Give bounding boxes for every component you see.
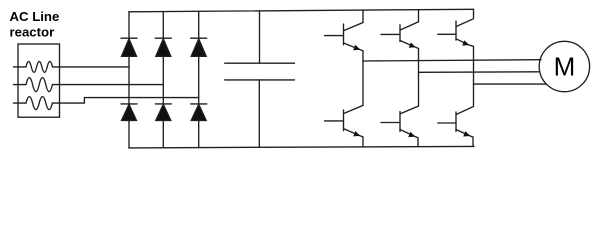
- svg-text:M: M: [554, 52, 576, 82]
- diode D3 top leg3: [191, 38, 207, 56]
- rectifier leg 2 wire: [162, 12, 164, 148]
- wire phase A input stub: [14, 66, 27, 68]
- transistor Q2 top leg2: [381, 10, 419, 73]
- capacitor C1 bottom plate: [225, 79, 295, 81]
- transistor Q6 bottom leg3: [438, 84, 474, 146]
- svg-text:AC Line: AC Line: [10, 9, 60, 24]
- label: AC Line reactor: [10, 9, 60, 40]
- diode D6 bottom leg3: [191, 104, 207, 121]
- wire phase C with jog to bridge leg 3: [52, 98, 198, 104]
- rectifier leg 1 wire: [128, 12, 130, 148]
- phase U output wire to motor: [363, 60, 541, 61]
- wire phase B input stub: [14, 84, 27, 86]
- transistor Q4 bottom leg1: [325, 61, 364, 147]
- transistor Q5 bottom leg2: [381, 72, 419, 146]
- diode D5 bottom leg2: [155, 104, 171, 121]
- diode D1 top leg1: [121, 38, 137, 56]
- inductor coil phase B: [26, 78, 52, 92]
- diode D4 bottom leg1: [121, 104, 137, 121]
- AC line reactor box L1: [18, 44, 60, 117]
- DC bus capacitor C1 stem top: [259, 11, 261, 63]
- diode D2 top leg2: [155, 38, 171, 56]
- phase W output wire to motor: [474, 83, 547, 85]
- wire phase B to bridge leg 2: [52, 84, 163, 86]
- DC+ top rail: [129, 9, 474, 12]
- rectifier leg 3 wire: [198, 11, 200, 147]
- capacitor C1 top plate: [225, 62, 295, 64]
- DC bus capacitor C1 stem bottom: [258, 80, 260, 147]
- inductor coil phase A: [26, 61, 52, 72]
- svg-text:reactor: reactor: [10, 25, 55, 40]
- transistor Q1 top leg1: [325, 10, 364, 61]
- transistor Q3 top leg3: [438, 9, 474, 84]
- wire phase C input stub: [14, 102, 27, 104]
- inductor coil phase C: [26, 97, 52, 110]
- motor M circle: [539, 41, 589, 91]
- wire phase A to bridge leg 1: [53, 66, 130, 68]
- phase V output wire to motor: [419, 71, 540, 74]
- DC- bottom rail: [129, 146, 474, 148]
